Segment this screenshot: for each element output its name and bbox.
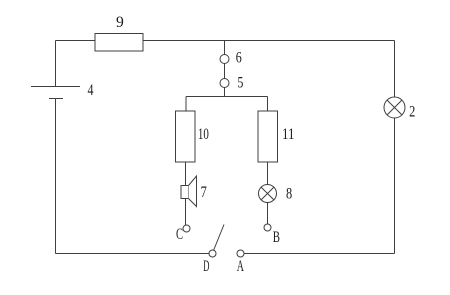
battery 4 long plate bbox=[31, 86, 80, 88]
wire: lamp 8 to terminal B bbox=[267, 203, 269, 225]
svg-text:8: 8 bbox=[286, 186, 292, 203]
wire: middle vertical from top bbox=[224, 41, 226, 55]
switch lever bbox=[214, 225, 225, 251]
svg-text:A: A bbox=[237, 258, 244, 275]
wire: top left segment bbox=[56, 40, 96, 42]
battery 4 short plate bbox=[49, 98, 63, 100]
svg-text:6: 6 bbox=[236, 50, 242, 67]
svg-text:2: 2 bbox=[409, 104, 415, 121]
resistor 10 bbox=[176, 111, 196, 162]
svg-text:D: D bbox=[203, 258, 209, 275]
svg-text:B: B bbox=[273, 229, 280, 246]
wire: resistor 10 to speaker bbox=[185, 162, 187, 186]
svg-text:C: C bbox=[176, 226, 183, 243]
resistor 9 bbox=[95, 34, 143, 52]
wire: left vertical lower bbox=[55, 99, 57, 254]
svg-text:9: 9 bbox=[116, 14, 124, 31]
wire: resistor 11 to lamp 8 bbox=[267, 162, 269, 185]
lamp 2 bbox=[384, 97, 405, 118]
svg-text:10: 10 bbox=[198, 126, 209, 143]
svg-text:4: 4 bbox=[88, 82, 94, 99]
wire: right vertical upper bbox=[394, 41, 396, 98]
wire: branch bar bbox=[186, 96, 268, 98]
terminal C bbox=[183, 225, 190, 232]
switch terminal D bbox=[209, 250, 216, 257]
wire: right vertical lower bbox=[394, 118, 396, 254]
svg-text:11: 11 bbox=[282, 126, 295, 143]
svg-text:5: 5 bbox=[237, 75, 243, 92]
wire: between terminals 6 and 5 bbox=[224, 64, 226, 79]
wire: speaker to terminal C bbox=[185, 199, 187, 226]
wire: bottom left segment bbox=[56, 253, 210, 255]
wire: right branch drop bbox=[267, 97, 269, 112]
wire: left branch drop bbox=[185, 97, 187, 112]
terminal 6 bbox=[220, 55, 229, 64]
terminal B bbox=[264, 224, 271, 231]
wire: left vertical upper bbox=[55, 41, 57, 87]
resistor 11 bbox=[258, 111, 278, 162]
terminal 5 bbox=[220, 79, 229, 88]
speaker 7 bbox=[181, 176, 197, 207]
lamp 8 bbox=[259, 185, 277, 203]
wire: below terminal 5 bbox=[224, 88, 226, 97]
svg-text:7: 7 bbox=[201, 184, 207, 201]
switch terminal A bbox=[237, 250, 244, 257]
wire: top right segment bbox=[143, 40, 395, 42]
wire: bottom right segment bbox=[244, 253, 395, 255]
